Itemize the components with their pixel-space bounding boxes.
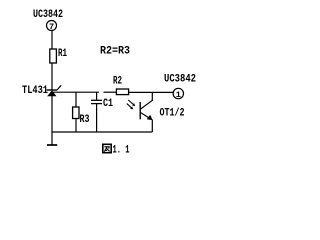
svg-text:R1: R1 [58, 48, 67, 60]
svg-text:1. 1: 1. 1 [113, 145, 130, 157]
svg-text:OT1/2: OT1/2 [160, 108, 185, 120]
svg-text:UC3842: UC3842 [33, 9, 63, 21]
svg-text:1: 1 [176, 90, 181, 100]
svg-text:R2: R2 [113, 76, 122, 88]
svg-text:TL431: TL431 [22, 85, 48, 97]
svg-text:R2=R3: R2=R3 [100, 46, 130, 58]
svg-text:UC3842: UC3842 [164, 74, 196, 86]
svg-text:C1: C1 [103, 98, 113, 110]
svg-text:R3: R3 [80, 114, 90, 126]
